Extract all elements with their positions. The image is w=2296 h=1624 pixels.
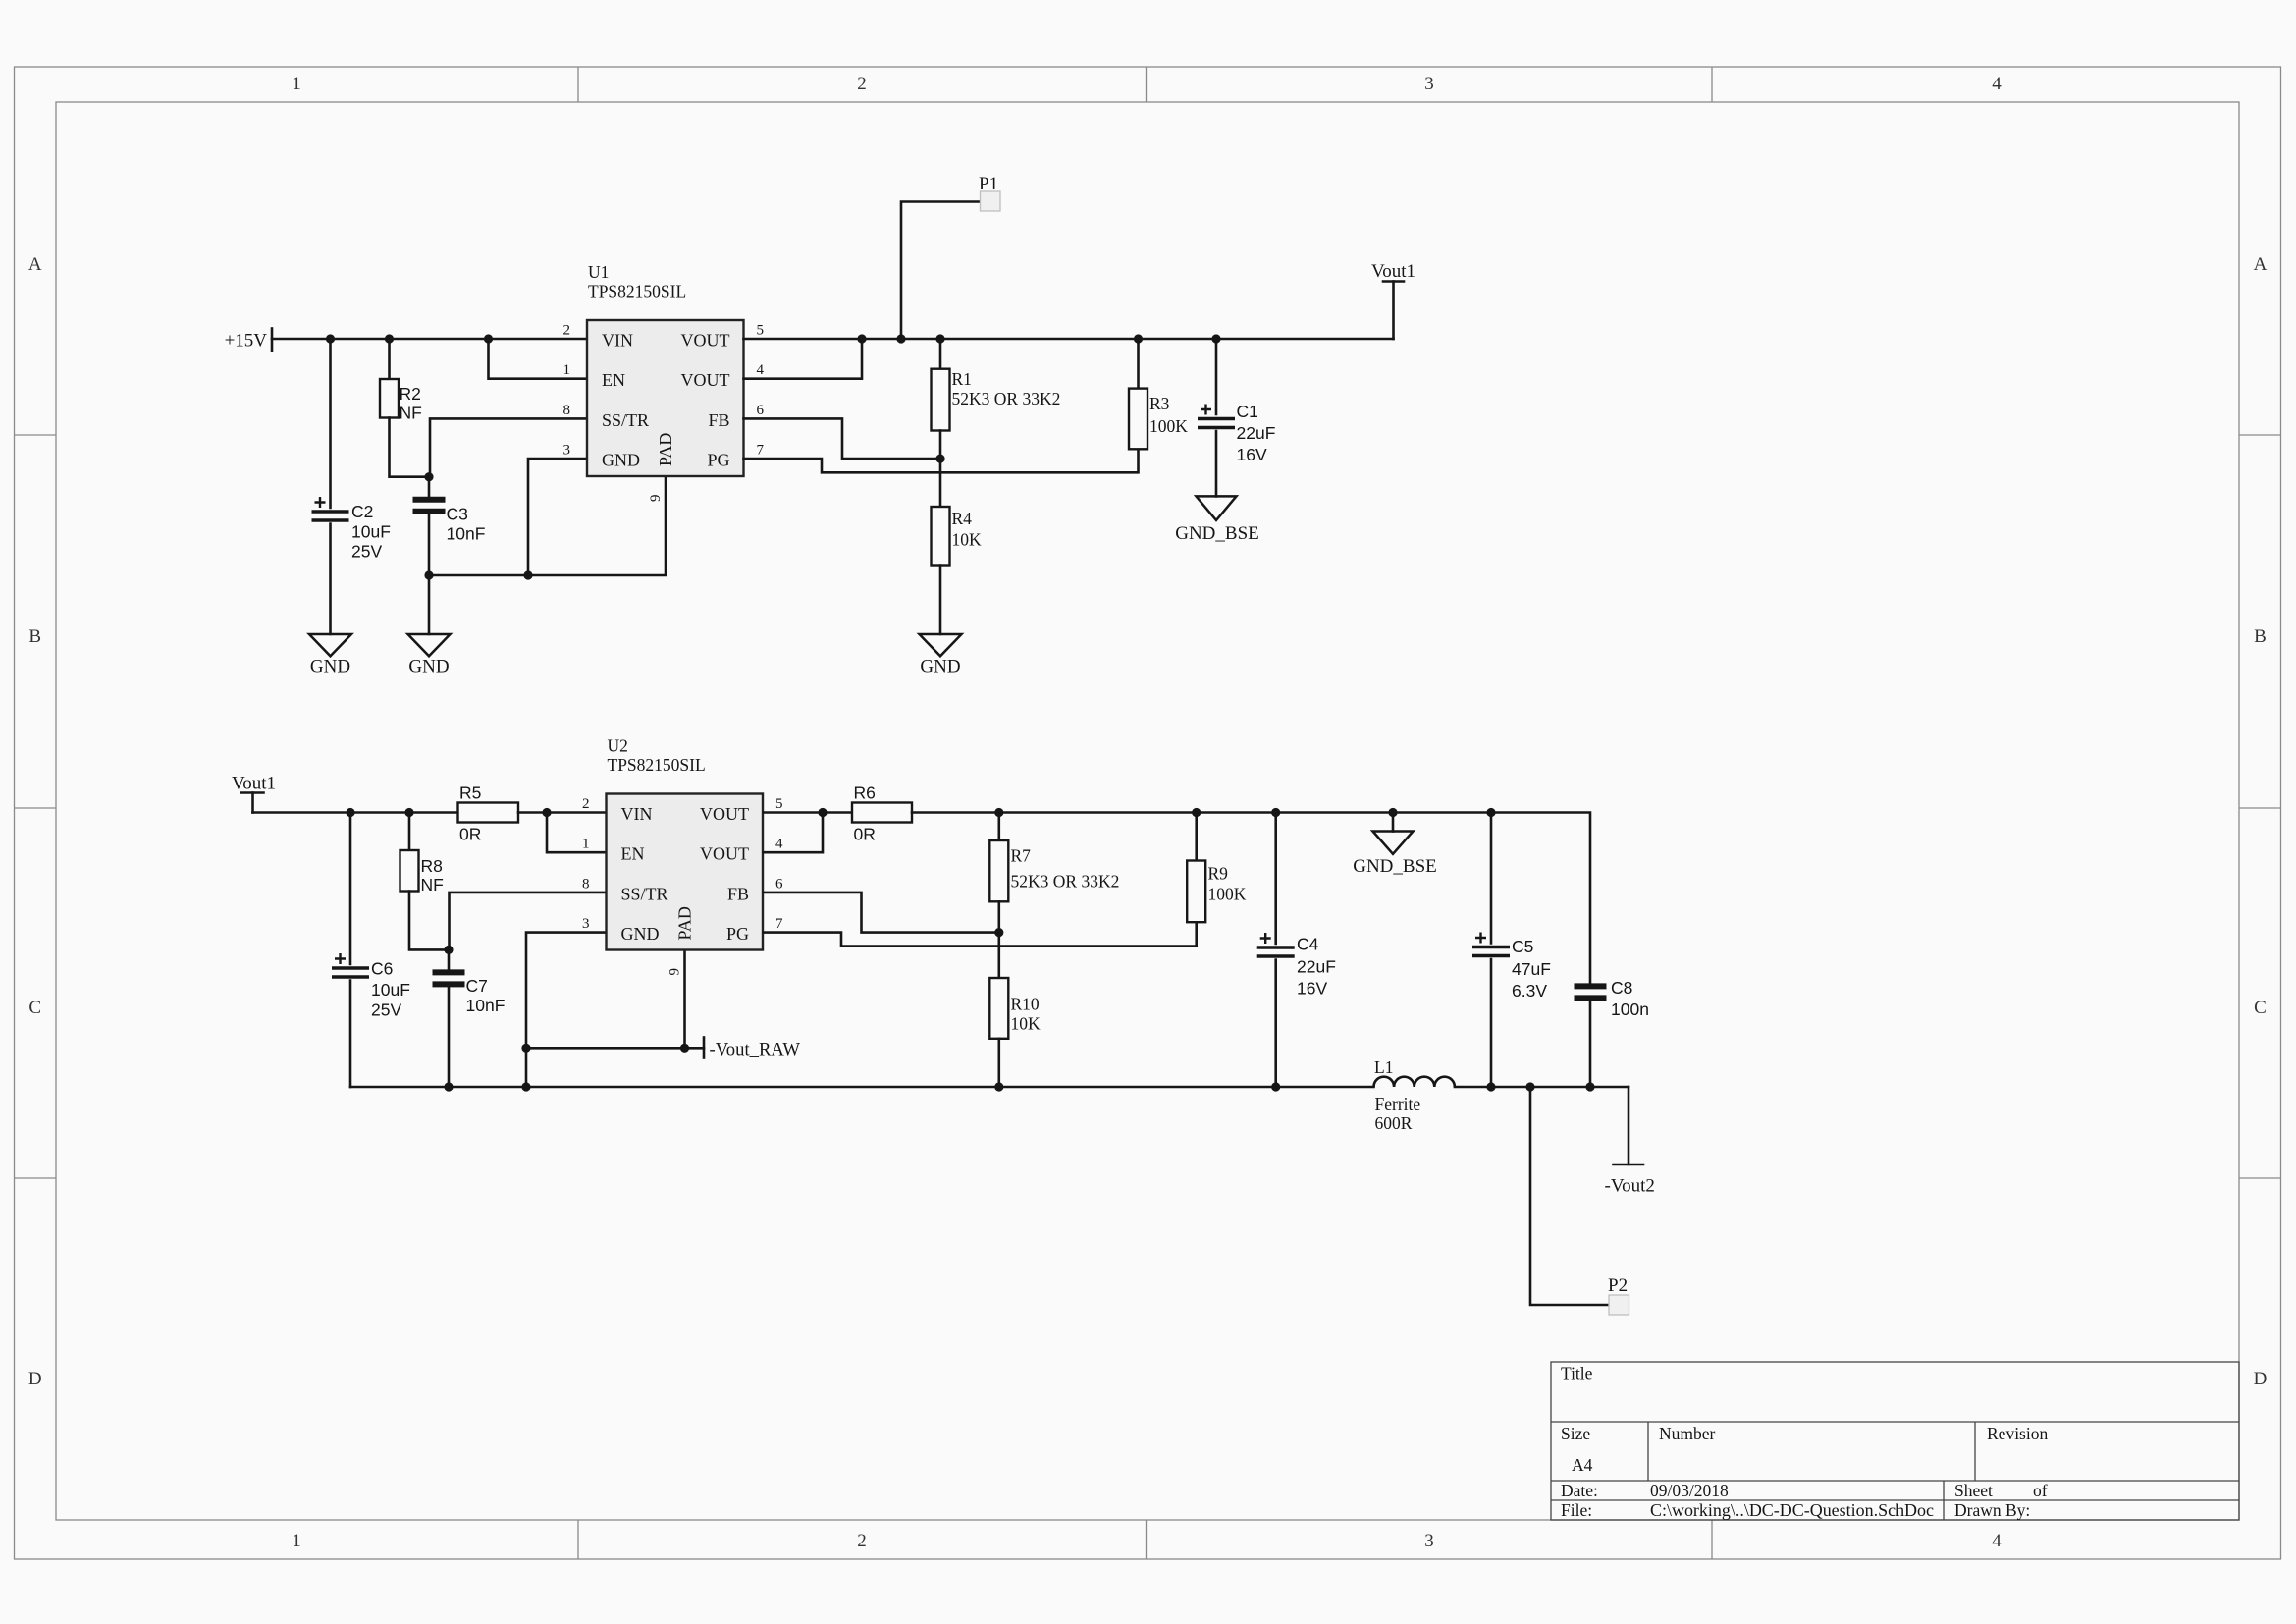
svg-text:2: 2 xyxy=(582,796,590,812)
svg-text:File:: File: xyxy=(1561,1500,1592,1520)
junction rail / C4 xyxy=(1271,1082,1280,1091)
wire R1 top xyxy=(939,339,942,369)
svg-text:Revision: Revision xyxy=(1987,1424,2048,1443)
svg-text:SS/TR: SS/TR xyxy=(621,884,668,903)
svg-text:3: 3 xyxy=(582,916,590,932)
capacitor C2 10uF 25V xyxy=(312,497,391,562)
resistor R1 xyxy=(932,369,1061,431)
svg-text:5: 5 xyxy=(757,323,765,339)
svg-text:100n: 100n xyxy=(1611,1000,1649,1019)
svg-text:C1: C1 xyxy=(1237,402,1258,421)
wire R4 to GND xyxy=(939,566,942,635)
svg-text:A: A xyxy=(28,254,42,275)
svg-text:C5: C5 xyxy=(1512,937,1533,956)
svg-text:52K3 OR 33K2: 52K3 OR 33K2 xyxy=(1011,872,1120,892)
wire R10 to rail xyxy=(997,1039,1000,1087)
svg-text:GND: GND xyxy=(621,924,660,944)
junction GND pin / PAD return xyxy=(523,570,532,579)
svg-text:4: 4 xyxy=(1992,1531,2002,1551)
wire C5 to rail xyxy=(1490,959,1493,1087)
svg-text:1: 1 xyxy=(292,1531,301,1551)
svg-text:-Vout_RAW: -Vout_RAW xyxy=(710,1040,801,1060)
junction rail / R10 xyxy=(994,1082,1003,1091)
svg-text:100K: 100K xyxy=(1208,885,1247,904)
capacitor C3 10nF xyxy=(413,500,486,544)
svg-text:10K: 10K xyxy=(952,530,983,550)
svg-text:2: 2 xyxy=(857,1531,867,1551)
svg-text:Title: Title xyxy=(1561,1364,1593,1383)
wire +15V to U1 VIN pin 2 xyxy=(272,338,587,341)
svg-text:-Vout2: -Vout2 xyxy=(1605,1176,1655,1197)
svg-text:GND: GND xyxy=(920,657,960,677)
svg-text:2: 2 xyxy=(563,323,571,339)
svg-text:22uF: 22uF xyxy=(1297,957,1336,977)
wire U1 FB pin 6 to divider xyxy=(744,418,941,459)
wire R10 top xyxy=(997,933,1000,978)
svg-text:R3: R3 xyxy=(1149,394,1170,413)
svg-text:R9: R9 xyxy=(1208,864,1229,884)
svg-text:NF: NF xyxy=(421,875,444,894)
svg-text:4: 4 xyxy=(1992,74,2002,94)
svg-text:10nF: 10nF xyxy=(466,996,506,1015)
ground GND under C2 xyxy=(309,634,351,677)
wire C3 to GND xyxy=(428,514,431,634)
wire U2 PG pin 7 to R9 bottom xyxy=(764,922,1197,946)
svg-text:R4: R4 xyxy=(952,509,973,528)
svg-text:VOUT: VOUT xyxy=(681,331,730,351)
svg-text:7: 7 xyxy=(775,916,783,932)
svg-text:FB: FB xyxy=(708,410,729,430)
resistor R7 xyxy=(989,840,1119,901)
svg-text:C3: C3 xyxy=(447,505,468,524)
junction PAD / -Vout_RAW xyxy=(680,1044,689,1053)
svg-text:A: A xyxy=(2254,254,2268,275)
wire U1 VOUT pin 4 join xyxy=(744,339,863,379)
wire R5 to U2 VIN pin 2 xyxy=(518,811,607,814)
svg-text:VOUT: VOUT xyxy=(681,370,730,390)
inductor L1 Ferrite 600R xyxy=(1374,1057,1455,1133)
svg-text:Drawn By:: Drawn By: xyxy=(1954,1500,2030,1520)
wire U1 PG pin 7 to R3 bottom xyxy=(744,449,1139,472)
junction Vout1 / R8 xyxy=(404,808,413,817)
svg-text:P1: P1 xyxy=(979,174,998,194)
junction VOUT / P1 xyxy=(896,334,905,343)
svg-text:6.3V: 6.3V xyxy=(1512,981,1547,1001)
svg-text:C4: C4 xyxy=(1297,935,1319,954)
wire R7 bottom xyxy=(997,901,1000,932)
svg-text:PG: PG xyxy=(726,924,749,944)
svg-text:C2: C2 xyxy=(351,502,373,521)
junction +15V / C2 xyxy=(326,334,335,343)
junction rail / C5 xyxy=(1486,1082,1495,1091)
svg-text:Number: Number xyxy=(1659,1424,1716,1443)
svg-text:SS/TR: SS/TR xyxy=(602,410,649,430)
resistor R3 xyxy=(1129,389,1188,450)
ground GND_BSE (top) xyxy=(1175,496,1259,544)
svg-text:FB: FB xyxy=(727,884,749,903)
svg-text:Ferrite: Ferrite xyxy=(1375,1094,1421,1113)
svg-text:C8: C8 xyxy=(1611,978,1632,998)
svg-text:Size: Size xyxy=(1561,1424,1590,1443)
port P2 xyxy=(1608,1275,1629,1315)
capacitor C7 10nF xyxy=(433,972,506,1015)
wire C3 top xyxy=(428,477,431,497)
port P1 xyxy=(979,174,1000,211)
svg-text:R6: R6 xyxy=(854,784,876,803)
junction C3 / PAD return xyxy=(424,570,433,579)
wire U2 VOUT pin 4 join xyxy=(764,813,824,853)
svg-text:10uF: 10uF xyxy=(351,522,391,542)
wire C6 branch xyxy=(349,813,352,965)
junction GND pin / -Vout_RAW xyxy=(521,1044,530,1053)
svg-text:47uF: 47uF xyxy=(1512,959,1551,979)
wire U2 PAD pin 9 down xyxy=(683,950,686,1048)
wire C1 to GND_BSE xyxy=(1215,431,1218,496)
svg-text:0R: 0R xyxy=(459,825,481,844)
port -Vout2 xyxy=(1605,1164,1655,1197)
wire to port P2 xyxy=(1530,1087,1609,1305)
junction rail / P2 xyxy=(1525,1082,1534,1091)
svg-text:Sheet: Sheet xyxy=(1954,1481,1993,1500)
svg-text:4: 4 xyxy=(775,837,783,852)
wire to U2 EN pin 1 xyxy=(547,813,607,853)
junction VOUT / R3 xyxy=(1134,334,1143,343)
svg-text:VIN: VIN xyxy=(602,331,633,351)
svg-text:L1: L1 xyxy=(1374,1057,1393,1077)
wire C5 top xyxy=(1490,813,1493,944)
svg-text:2: 2 xyxy=(857,74,867,94)
wire C4 top xyxy=(1274,813,1277,945)
svg-text:9: 9 xyxy=(648,495,664,503)
capacitor C4 22uF 16V xyxy=(1257,933,1336,999)
port -Vout_RAW xyxy=(704,1038,800,1060)
junction +15V / R2 xyxy=(385,334,394,343)
svg-text:C:\working\..\DC-DC-Question.S: C:\working\..\DC-DC-Question.SchDoc xyxy=(1650,1500,1934,1520)
wire R2 bottom to C3 node xyxy=(390,418,430,477)
svg-text:100K: 100K xyxy=(1149,416,1188,436)
svg-text:Vout1: Vout1 xyxy=(1371,261,1415,282)
wire R4 top xyxy=(939,459,942,507)
wire bottom rail right of L1 xyxy=(1455,1086,1629,1089)
wire R6 to output net and C8 xyxy=(912,813,1590,984)
svg-text:0R: 0R xyxy=(854,825,876,844)
svg-text:9: 9 xyxy=(667,968,683,976)
wire U2 SS/TR pin 8 to C7 node xyxy=(450,893,607,950)
wire to GND_BSE (bottom) xyxy=(1392,813,1395,832)
wire U2 FB pin 6 to divider xyxy=(764,893,999,933)
svg-text:B: B xyxy=(28,626,41,647)
svg-text:C6: C6 xyxy=(371,959,393,979)
svg-text:PAD: PAD xyxy=(656,433,675,466)
wire U2 VOUT pin 5 to R6 xyxy=(764,811,853,814)
svg-text:C7: C7 xyxy=(466,976,488,996)
svg-text:52K3 OR 33K2: 52K3 OR 33K2 xyxy=(952,389,1061,408)
svg-text:R1: R1 xyxy=(952,369,972,389)
svg-text:+15V: +15V xyxy=(225,331,268,352)
svg-text:GND_BSE: GND_BSE xyxy=(1353,856,1437,877)
wire C6 to rail xyxy=(349,981,352,1088)
resistor R2 xyxy=(380,379,422,423)
svg-text:TPS82150SIL: TPS82150SIL xyxy=(608,755,706,775)
svg-text:6: 6 xyxy=(775,876,783,892)
svg-text:600R: 600R xyxy=(1375,1113,1413,1133)
svg-text:3: 3 xyxy=(1424,1531,1434,1551)
svg-text:10uF: 10uF xyxy=(371,980,410,1000)
svg-text:6: 6 xyxy=(757,403,765,418)
wire C4 to rail xyxy=(1274,960,1277,1088)
svg-text:25V: 25V xyxy=(371,1001,401,1020)
wire U2 GND pin 3 down xyxy=(526,933,607,1087)
svg-text:16V: 16V xyxy=(1297,979,1327,999)
resistor R5 xyxy=(458,784,519,844)
junction net / C5 xyxy=(1486,808,1495,817)
svg-text:R7: R7 xyxy=(1011,846,1032,866)
svg-text:10nF: 10nF xyxy=(447,524,486,544)
wire C7 to rail xyxy=(448,987,451,1087)
port Vout1 (top) xyxy=(1371,261,1415,282)
wire R1 bottom xyxy=(939,431,942,460)
wire R9 top xyxy=(1195,813,1198,861)
junction rail / GND pin xyxy=(521,1082,530,1091)
wire to -Vout2 port xyxy=(1628,1087,1630,1164)
svg-text:PAD: PAD xyxy=(675,906,695,940)
svg-text:C: C xyxy=(2254,998,2267,1018)
svg-text:GND: GND xyxy=(310,657,350,677)
port Vout1 (bottom) xyxy=(232,774,276,794)
power port +15V xyxy=(225,329,272,352)
svg-text:R2: R2 xyxy=(400,384,421,404)
svg-text:10K: 10K xyxy=(1011,1014,1041,1034)
junction SS/TR / R2 / C3 xyxy=(424,472,433,481)
svg-text:P2: P2 xyxy=(1608,1275,1628,1296)
junction VIN / EN xyxy=(542,808,551,817)
svg-text:PG: PG xyxy=(707,451,729,470)
svg-text:VIN: VIN xyxy=(621,804,653,824)
wire Vout1 drop xyxy=(251,793,254,813)
junction net / C4 xyxy=(1271,808,1280,817)
resistor R6 xyxy=(852,784,912,844)
resistor R8 xyxy=(400,850,444,894)
svg-text:22uF: 22uF xyxy=(1237,423,1276,443)
svg-text:16V: 16V xyxy=(1237,445,1267,464)
wire C7 top xyxy=(448,949,451,969)
svg-text:Date:: Date: xyxy=(1561,1481,1598,1500)
junction net / GND_BSE xyxy=(1388,808,1397,817)
svg-text:09/03/2018: 09/03/2018 xyxy=(1650,1481,1729,1500)
resistor R4 xyxy=(932,507,983,566)
svg-text:R8: R8 xyxy=(421,856,443,876)
wire Vout1 port drop xyxy=(1392,282,1395,340)
ground GND under R4 xyxy=(920,634,962,677)
svg-text:VOUT: VOUT xyxy=(700,804,749,824)
IC U1 TPS82150SIL xyxy=(563,262,765,502)
svg-text:8: 8 xyxy=(563,403,571,418)
wire U1 PAD pin 9 return xyxy=(429,477,666,576)
svg-text:R10: R10 xyxy=(1011,995,1040,1014)
svg-text:A4: A4 xyxy=(1572,1455,1593,1475)
svg-text:8: 8 xyxy=(582,876,590,892)
junction rail / C7 xyxy=(444,1082,453,1091)
svg-text:NF: NF xyxy=(400,404,422,423)
svg-text:B: B xyxy=(2254,626,2267,647)
wire bottom rail left of L1 xyxy=(350,1086,1374,1089)
svg-text:D: D xyxy=(28,1369,42,1389)
svg-text:VOUT: VOUT xyxy=(700,844,749,864)
wire Vout1 to R5 xyxy=(253,811,458,814)
svg-text:3: 3 xyxy=(563,443,571,459)
capacitor C1 22uF 16V xyxy=(1198,402,1275,464)
wire C2 branch xyxy=(329,339,332,508)
resistor R9 xyxy=(1187,861,1247,923)
wire R2 top xyxy=(388,339,391,379)
svg-text:of: of xyxy=(2033,1481,2048,1500)
wire C2 to GND xyxy=(329,524,332,635)
svg-text:GND_BSE: GND_BSE xyxy=(1175,523,1259,544)
svg-text:GND: GND xyxy=(408,657,449,677)
svg-text:4: 4 xyxy=(757,362,765,378)
svg-text:5: 5 xyxy=(775,796,783,812)
junction net / R9 xyxy=(1192,808,1201,817)
wire U1 VOUT pin 5 output net xyxy=(744,338,1394,341)
junction +15V / EN xyxy=(484,334,493,343)
svg-text:EN: EN xyxy=(602,370,625,390)
svg-text:D: D xyxy=(2254,1369,2268,1389)
svg-text:3: 3 xyxy=(1424,74,1434,94)
junction Vout1 / C6 xyxy=(346,808,354,817)
junction VOUT pins U2 xyxy=(818,808,827,817)
capacitor C6 10uF 25V xyxy=(332,953,410,1020)
capacitor C8 100n xyxy=(1575,978,1649,1019)
svg-text:25V: 25V xyxy=(351,542,382,562)
junction rail / C8 xyxy=(1585,1082,1594,1091)
junction net / R7 xyxy=(994,808,1003,817)
junction VOUT pins xyxy=(857,334,866,343)
wire R8 top xyxy=(408,813,411,851)
svg-text:1: 1 xyxy=(563,362,571,378)
wire R3 top xyxy=(1137,339,1140,389)
svg-text:C: C xyxy=(28,998,41,1018)
junction VOUT / C1 xyxy=(1211,334,1220,343)
svg-text:7: 7 xyxy=(757,443,765,459)
junction SS/TR / R8 / C7 xyxy=(444,946,453,954)
wire U1 GND pin 3 down xyxy=(528,459,587,575)
svg-text:R5: R5 xyxy=(459,784,481,803)
svg-text:EN: EN xyxy=(621,844,645,864)
svg-text:1: 1 xyxy=(582,837,590,852)
IC U2 TPS82150SIL xyxy=(582,736,783,976)
svg-text:U2: U2 xyxy=(608,736,628,756)
ground GND_BSE (bottom) xyxy=(1353,832,1437,878)
wire R7 top xyxy=(997,813,1000,841)
wire to U1 EN pin 1 xyxy=(489,339,588,379)
svg-text:TPS82150SIL: TPS82150SIL xyxy=(588,282,686,301)
wire U1 SS/TR pin 8 to C3 node xyxy=(430,418,587,476)
junction R7 / R10 / FB xyxy=(994,928,1003,937)
wire R8 bottom to C7 node xyxy=(409,892,449,950)
svg-text:1: 1 xyxy=(292,74,301,94)
junction R1 / R4 / FB xyxy=(935,455,944,463)
capacitor C5 47uF 6.3V xyxy=(1472,933,1551,1001)
wire to port P1 xyxy=(901,202,981,340)
svg-text:Vout1: Vout1 xyxy=(232,774,276,794)
wire C1 top xyxy=(1215,339,1218,414)
resistor R10 xyxy=(989,978,1041,1039)
ground GND under C3 xyxy=(408,634,451,677)
svg-text:U1: U1 xyxy=(588,262,609,282)
junction VOUT / R1 xyxy=(935,334,944,343)
wire C8 to rail xyxy=(1589,1001,1592,1087)
svg-text:GND: GND xyxy=(602,451,640,470)
wire -Vout_RAW net xyxy=(526,1047,704,1050)
